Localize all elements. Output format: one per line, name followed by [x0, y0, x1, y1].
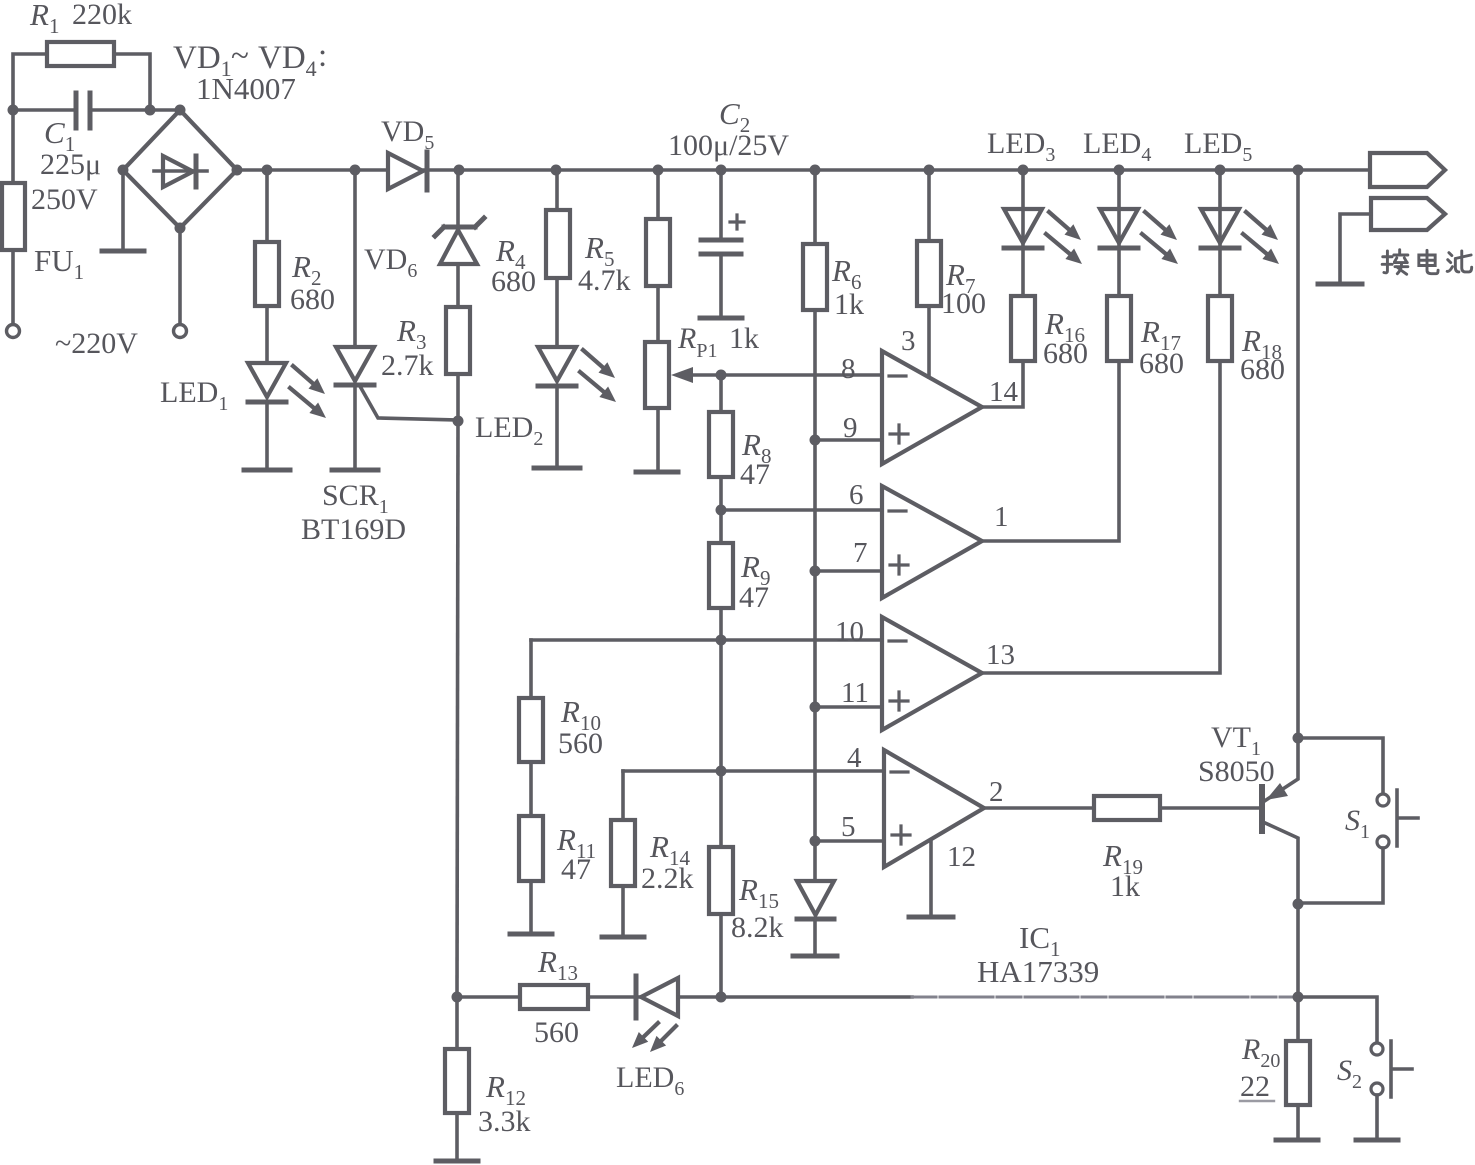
- ground R12: [436, 1159, 478, 1164]
- wire LED4 branch: [1117, 170, 1121, 296]
- node R5 tap: [653, 165, 664, 176]
- wiper arrow RP1: [671, 367, 693, 383]
- wire LED3 branch: [1021, 170, 1025, 296]
- plus U1B: [890, 556, 908, 574]
- svg-text:225μ: 225μ: [40, 148, 101, 181]
- svg-text:560: 560: [558, 727, 603, 760]
- resistor R17: [1107, 296, 1131, 361]
- wire R6 reference bus: [813, 310, 817, 881]
- node emitter junction: [1293, 899, 1304, 910]
- wire right rail down: [1296, 170, 1300, 738]
- AC terminal left: [7, 325, 20, 338]
- wire collector to S1: [1298, 738, 1383, 793]
- ground R14: [602, 935, 644, 940]
- svg-text:11: 11: [841, 677, 869, 709]
- wire bottom rail left: [457, 995, 520, 999]
- resistor R14: [611, 820, 635, 886]
- svg-text:1: 1: [994, 501, 1009, 533]
- svg-text:680: 680: [290, 283, 335, 316]
- node wiper junction: [716, 370, 727, 381]
- bridge rectifier VD1-VD4: [123, 110, 237, 228]
- minus U1B: [889, 509, 906, 512]
- svg-text:8.2k: 8.2k: [731, 911, 784, 944]
- node gate junction: [453, 416, 464, 427]
- svg-text:100: 100: [941, 287, 986, 320]
- node LED3 tap: [1018, 165, 1029, 176]
- svg-text:3: 3: [901, 325, 916, 357]
- svg-text:1k: 1k: [729, 322, 759, 355]
- wire pin5 input: [815, 839, 884, 843]
- wire C2 bottom: [719, 254, 723, 317]
- node LED5 tap: [1215, 165, 1226, 176]
- resistor R3: [446, 307, 470, 374]
- svg-text:22: 22: [1240, 1070, 1270, 1103]
- wire SCR cathode to ground: [353, 385, 357, 469]
- wire VD6 to R3: [456, 264, 460, 307]
- battery plug positive: [1370, 153, 1445, 187]
- wire S1 to emitter node: [1298, 848, 1383, 903]
- switch S2: [1371, 1043, 1383, 1055]
- wire C1 row: [13, 108, 76, 112]
- wire R20 to ground: [1296, 1105, 1300, 1139]
- wire node to R9: [719, 510, 723, 543]
- svg-text:680: 680: [491, 265, 536, 298]
- wire R6 branch: [813, 170, 817, 244]
- svg-text:2: 2: [989, 776, 1004, 808]
- ground LED2: [534, 466, 580, 471]
- svg-text:4.7k: 4.7k: [578, 264, 631, 297]
- wire clamp diode to ground: [813, 919, 817, 955]
- wire R12 branch: [455, 997, 459, 1049]
- wire LED5 branch: [1218, 170, 1222, 296]
- wire R3 down: [456, 374, 460, 421]
- svg-text:12: 12: [947, 841, 976, 873]
- node R6 tap: [810, 165, 821, 176]
- ground R20: [1276, 1138, 1318, 1143]
- svg-text:10: 10: [835, 616, 864, 648]
- resistor R12: [445, 1049, 469, 1113]
- ground bridge left: [121, 170, 125, 250]
- ground S2: [1356, 1138, 1398, 1143]
- minus U1C: [889, 639, 906, 642]
- wire LED1 to ground: [265, 402, 269, 469]
- diode reference clamp: [797, 881, 834, 915]
- wire S2 to ground: [1375, 1095, 1379, 1139]
- wire R14 to ground: [621, 886, 625, 936]
- svg-text:9: 9: [843, 412, 858, 444]
- resistor R2: [255, 242, 279, 306]
- LED LED3: [1004, 209, 1042, 243]
- wire LED2 to ground: [555, 386, 559, 467]
- svg-text:HA17339: HA17339: [977, 954, 1099, 989]
- node R4 tap: [551, 165, 562, 176]
- wire pin6 input: [721, 508, 882, 512]
- wire R2 branch: [265, 170, 269, 242]
- wire opamp4 output to R19: [984, 806, 1094, 810]
- wire bottom rail to S2: [1298, 997, 1377, 1042]
- svg-text:2.7k: 2.7k: [381, 349, 434, 382]
- node B: [145, 105, 156, 116]
- wire R2 to LED1: [265, 306, 269, 363]
- node bridge right: [232, 165, 243, 176]
- resistor R18: [1208, 296, 1232, 361]
- svg-text:S8050: S8050: [1198, 755, 1275, 788]
- wire C2 top: [719, 170, 723, 238]
- ground battery negative: [1318, 282, 1362, 287]
- ground RP1: [636, 470, 678, 475]
- svg-text:~220V: ~220V: [55, 327, 138, 360]
- svg-text:220k: 220k: [72, 0, 132, 31]
- wire R13 to LED6: [588, 995, 640, 999]
- svg-text:680: 680: [1139, 347, 1184, 380]
- resistor R6: [803, 244, 827, 310]
- svg-text:3.3k: 3.3k: [478, 1105, 531, 1138]
- wire R7 to opamp vcc: [927, 306, 931, 377]
- wire output pin1: [982, 363, 1119, 541]
- ground clamp diode: [793, 954, 837, 959]
- LED LED5: [1201, 209, 1239, 243]
- ground pin12: [909, 915, 953, 920]
- svg-text:1k: 1k: [1110, 870, 1140, 903]
- wire R4 branch: [555, 170, 559, 210]
- node C2 tap: [716, 165, 727, 176]
- resistor R9: [709, 543, 733, 608]
- svg-text:47: 47: [739, 581, 769, 614]
- node bottom right junction: [1293, 992, 1304, 1003]
- resistor R19: [1094, 796, 1160, 820]
- wire bridge bottom to AC terminal: [178, 228, 182, 324]
- wire R12 to ground: [455, 1113, 459, 1160]
- resistor R13: [520, 985, 588, 1009]
- LED LED4: [1100, 209, 1138, 243]
- LED LED1: [248, 363, 286, 397]
- switch S1: [1377, 794, 1389, 806]
- wire bottom rail solid: [721, 995, 912, 999]
- svg-text:BT169D: BT169D: [301, 513, 406, 546]
- wire R9 to node: [719, 608, 723, 640]
- svg-text:4: 4: [847, 742, 862, 774]
- op-amp U1C comparator: [882, 617, 982, 730]
- svg-text:1N4007: 1N4007: [196, 71, 296, 106]
- svg-text:6: 6: [849, 479, 864, 511]
- op-amp U1B comparator: [882, 486, 982, 598]
- wire pin4 input: [623, 769, 884, 773]
- node A: [8, 105, 19, 116]
- wire R5 to RP1: [656, 286, 660, 342]
- wire pin7 input: [815, 569, 882, 573]
- node LED4 tap: [1114, 165, 1125, 176]
- diode VD5: [388, 153, 423, 189]
- VT1 collector lead: [1263, 738, 1298, 802]
- wire SCR gate: [361, 388, 458, 420]
- wire R14 branch: [621, 771, 625, 820]
- bridge inner diode: [154, 169, 207, 173]
- wire R20 branch: [1296, 997, 1300, 1041]
- op-amp U1A comparator: [882, 351, 982, 464]
- node pin5 tap: [810, 836, 821, 847]
- zener diode VD6: [444, 225, 475, 230]
- wire LED6 to node: [678, 995, 721, 999]
- resistor R8: [709, 412, 733, 477]
- node bridge top: [175, 105, 186, 116]
- svg-text::: :: [318, 38, 327, 74]
- svg-text:5: 5: [841, 811, 856, 843]
- potentiometer RP1: [645, 342, 669, 408]
- wire emitter node down: [1296, 904, 1300, 997]
- node collector junction: [1293, 733, 1304, 744]
- node right rail tap: [1293, 165, 1304, 176]
- svg-text:680: 680: [1240, 353, 1285, 386]
- resistor R1: [47, 42, 114, 66]
- svg-text:47: 47: [561, 853, 591, 886]
- wire R15 to bottom rail: [719, 914, 723, 997]
- wire output pin13: [982, 361, 1220, 673]
- node R9 bottom junction: [716, 635, 727, 646]
- svg-text:680: 680: [1043, 337, 1088, 370]
- svg-text:8: 8: [841, 353, 856, 385]
- wire R10 to R11: [529, 762, 533, 816]
- capacitor C1: [74, 93, 79, 128]
- svg-text:14: 14: [989, 376, 1019, 408]
- svg-text:~: ~: [231, 38, 249, 74]
- wire RP1 to ground: [656, 408, 660, 471]
- wire pin9 input: [815, 438, 882, 442]
- ground R11: [510, 932, 552, 937]
- svg-text:47: 47: [740, 458, 770, 491]
- wire R15 branch: [719, 771, 723, 847]
- plus U1A: [890, 425, 908, 443]
- resistor R15: [709, 847, 733, 914]
- wire left vertical bus: [457, 421, 458, 997]
- node bridge bottom: [175, 223, 186, 234]
- wire pin8 input: [693, 373, 882, 377]
- wire VD6 branch: [456, 170, 460, 228]
- minus U1A: [889, 374, 906, 377]
- wire R19 to base: [1160, 806, 1259, 810]
- wire bottom rail faint: [912, 995, 1298, 998]
- resistor R5: [646, 219, 670, 286]
- wire pin11 input: [815, 705, 882, 709]
- svg-text:2.2k: 2.2k: [641, 862, 694, 895]
- minus U1D: [891, 770, 908, 773]
- node pin11 tap: [810, 702, 821, 713]
- transistor VT1: [1259, 787, 1265, 831]
- node VD6 tap: [454, 165, 465, 176]
- wire wiper to R8: [719, 375, 723, 412]
- VT1 emitter lead: [1263, 822, 1298, 904]
- LED LED6: [634, 976, 639, 1018]
- wire main positive rail: [237, 168, 388, 172]
- capacitor C2: [701, 238, 741, 243]
- wire R4 to LED2: [555, 278, 559, 347]
- node pin4 junction: [716, 766, 727, 777]
- label battery text: [1382, 250, 1408, 275]
- op-amp U1D comparator: [884, 750, 984, 867]
- resistor R11: [519, 816, 543, 881]
- svg-text:13: 13: [986, 639, 1015, 671]
- plus U1C: [890, 692, 908, 710]
- LED LED2: [538, 347, 576, 381]
- ground SCR1: [332, 468, 378, 473]
- plus U1D: [892, 826, 910, 844]
- svg-text:100μ/25V: 100μ/25V: [668, 129, 789, 162]
- ground LED1: [244, 468, 290, 473]
- wire R8 to node: [719, 477, 723, 510]
- resistor R7: [917, 241, 941, 306]
- wire SCR anode: [353, 170, 357, 347]
- resistor R4: [546, 210, 570, 278]
- node bottom mid junction: [716, 992, 727, 1003]
- node pin9 tap: [810, 435, 821, 446]
- wire R11 to ground: [529, 881, 533, 933]
- svg-text:560: 560: [534, 1016, 579, 1049]
- wire R10 branch: [529, 640, 533, 698]
- resistor R16: [1011, 296, 1035, 361]
- svg-text:250V: 250V: [31, 183, 98, 216]
- node R2 tap: [262, 165, 273, 176]
- wire negative plug to ground: [1340, 214, 1371, 283]
- node R8 R9 junction: [716, 505, 727, 516]
- wire R1 right lead: [114, 54, 150, 110]
- wire pin10 input: [531, 638, 882, 642]
- wire output pin14: [982, 361, 1023, 407]
- svg-text:7: 7: [853, 537, 868, 569]
- battery plug negative: [1371, 198, 1445, 230]
- node left bus bottom: [452, 992, 463, 1003]
- svg-text:1k: 1k: [834, 288, 864, 321]
- wire R5 branch: [656, 170, 660, 219]
- node bridge left: [118, 165, 129, 176]
- wire R7 branch: [927, 170, 931, 241]
- node SCR tap: [350, 165, 361, 176]
- wire divider bus down: [719, 640, 723, 771]
- fuse FU1: [11, 110, 15, 324]
- node R7 tap: [924, 165, 935, 176]
- resistor R20: [1286, 1041, 1310, 1105]
- node pin7 tap: [810, 566, 821, 577]
- thyristor SCR1: [336, 347, 374, 381]
- resistor R10: [519, 698, 543, 762]
- ground C2: [700, 316, 742, 321]
- wire R1 left lead: [13, 54, 47, 110]
- wire pin12 ground lead: [929, 840, 933, 916]
